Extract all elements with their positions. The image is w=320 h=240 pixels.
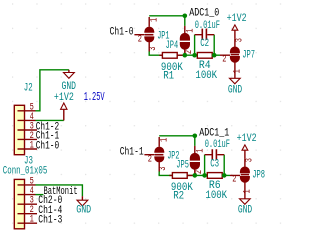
wire top rail ch0 bbox=[149, 15, 185, 17]
wire JP5 top bbox=[194, 136, 196, 146]
svg-text:+1V2: +1V2 bbox=[237, 133, 257, 145]
wire bottom rail ch1 bbox=[159, 171, 230, 175]
junction JP4 pin 2 / R1-R4 node bbox=[183, 53, 188, 58]
wire J3 pin4 to BatMonit bbox=[36, 194, 44, 196]
svg-text:Ch1-1: Ch1-1 bbox=[120, 146, 144, 158]
svg-text:R1: R1 bbox=[163, 71, 174, 83]
solder jumper JP5 bbox=[190, 146, 199, 176]
svg-text:+1V2: +1V2 bbox=[227, 13, 247, 25]
svg-text:0.01uF: 0.01uF bbox=[195, 20, 220, 32]
wire J2 pin4 to +1V2 bbox=[36, 119, 64, 121]
svg-text:1: 1 bbox=[149, 18, 161, 22]
power +1V2 at JP8 bbox=[244, 150, 246, 159]
svg-text:Ch1-3: Ch1-3 bbox=[38, 214, 62, 226]
svg-text:ADC1_0: ADC1_0 bbox=[189, 8, 219, 20]
solder jumper JP1 bbox=[134, 17, 153, 52]
wire top rail ch1 bbox=[159, 135, 195, 137]
junction C2 left / R4 left bbox=[192, 53, 197, 58]
svg-text:GND: GND bbox=[76, 205, 91, 217]
svg-text:R2: R2 bbox=[173, 191, 184, 203]
wire C3 left leg bbox=[204, 155, 206, 176]
svg-text:100K: 100K bbox=[195, 70, 217, 82]
svg-text:Conn_01x05: Conn_01x05 bbox=[3, 166, 48, 178]
wire J2 pin5 to GND bbox=[36, 70, 69, 111]
svg-text:Ch1-0: Ch1-0 bbox=[36, 140, 60, 152]
wire JP4 top bbox=[184, 16, 186, 26]
svg-text:1.25V: 1.25V bbox=[84, 90, 105, 104]
power GND at JP8 bbox=[244, 194, 246, 199]
solder jumper JP7 bbox=[220, 39, 239, 74]
svg-text:+1V2: +1V2 bbox=[54, 92, 74, 104]
svg-text:1: 1 bbox=[231, 69, 243, 73]
svg-text:J2: J2 bbox=[24, 82, 33, 94]
resistor R6 bbox=[206, 174, 224, 176]
power GND at J2 bbox=[68, 70, 70, 73]
power GND at JP7 bbox=[234, 74, 236, 79]
resistor R1 bbox=[159, 54, 183, 56]
wire C2 right leg bbox=[213, 35, 215, 56]
svg-text:1: 1 bbox=[159, 138, 171, 142]
power +1V2 at JP7 bbox=[234, 30, 236, 39]
power +1V2 at J2 bbox=[63, 110, 65, 121]
junction C3 left / R6 left bbox=[202, 173, 207, 178]
connector J3 bbox=[14, 179, 24, 228]
svg-text:100K: 100K bbox=[205, 190, 227, 202]
svg-text:2: 2 bbox=[148, 153, 152, 165]
junction ADC1_0 / JP4 pin 1 bbox=[183, 14, 188, 19]
svg-text:3: 3 bbox=[157, 167, 169, 171]
capacitor C2 bbox=[195, 34, 215, 36]
svg-text:1: 1 bbox=[30, 214, 34, 226]
svg-text:JP4: JP4 bbox=[166, 40, 179, 52]
junction C2 right / R4 right bbox=[212, 53, 217, 58]
svg-text:2: 2 bbox=[138, 33, 142, 45]
svg-text:C2: C2 bbox=[200, 38, 209, 50]
svg-text:1: 1 bbox=[241, 189, 253, 193]
svg-text:3: 3 bbox=[147, 47, 159, 51]
svg-text:2: 2 bbox=[232, 174, 236, 186]
junction C3 right / R6 right bbox=[222, 173, 227, 178]
svg-text:GND: GND bbox=[238, 205, 253, 217]
solder jumper JP2 bbox=[144, 137, 163, 172]
svg-text:0.01uF: 0.01uF bbox=[205, 139, 230, 151]
wire bottom rail ch0 bbox=[149, 51, 220, 55]
svg-text:Ch1-0: Ch1-0 bbox=[110, 26, 134, 38]
svg-text:JP8: JP8 bbox=[252, 169, 265, 181]
svg-text:JP5: JP5 bbox=[176, 160, 189, 172]
capacitor C3 bbox=[205, 154, 225, 156]
power GND at J3 bbox=[81, 196, 83, 200]
resistor R2 bbox=[169, 174, 193, 176]
solder jumper JP4 bbox=[180, 26, 189, 55]
svg-text:2: 2 bbox=[222, 54, 226, 66]
svg-text:JP7: JP7 bbox=[242, 49, 255, 61]
wire C2 left leg bbox=[194, 35, 196, 56]
svg-text:1: 1 bbox=[30, 140, 34, 152]
wire J3 pin5 to GND bbox=[36, 185, 83, 196]
resistor R4 bbox=[196, 54, 214, 56]
connector J2 bbox=[14, 105, 24, 154]
svg-text:ADC1_1: ADC1_1 bbox=[199, 128, 229, 140]
junction JP5 pin 2 / R2-R6 node bbox=[193, 173, 198, 178]
solder jumper JP8 bbox=[230, 159, 249, 194]
wire C3 right leg bbox=[223, 155, 225, 176]
junction ADC1_1 / JP5 pin 1 bbox=[193, 134, 198, 139]
svg-text:GND: GND bbox=[228, 84, 243, 96]
svg-text:C3: C3 bbox=[210, 159, 219, 171]
